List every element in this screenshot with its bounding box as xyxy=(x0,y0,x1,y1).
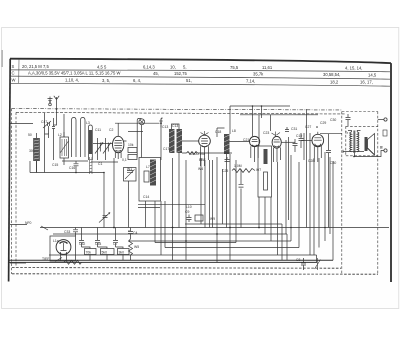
svg-text:10k: 10k xyxy=(128,143,134,147)
wire xyxy=(240,169,242,228)
wire xyxy=(303,133,305,160)
svg-text:C29: C29 xyxy=(320,121,326,125)
transformer top leads xyxy=(348,131,361,133)
svg-text:W7: W7 xyxy=(256,168,261,172)
capacitor C22 xyxy=(225,157,230,162)
wire xyxy=(165,247,299,249)
wire xyxy=(258,197,260,228)
svg-text:C23: C23 xyxy=(263,131,269,135)
svg-text:70k: 70k xyxy=(86,251,92,255)
wire xyxy=(318,158,320,248)
svg-text:300: 300 xyxy=(29,149,35,153)
top rail B+ xyxy=(230,105,290,107)
svg-text:W: W xyxy=(12,78,16,83)
svg-text:C27: C27 xyxy=(305,125,311,129)
svg-text:C16: C16 xyxy=(69,166,75,170)
svg-text:50: 50 xyxy=(28,133,32,137)
svg-text:W5: W5 xyxy=(134,245,139,249)
output terminal 2 xyxy=(384,149,387,152)
coupling capacitor C30 xyxy=(326,134,331,228)
coil L4 hairpin loop 3 xyxy=(89,125,93,160)
ground symbol (antenna pair) xyxy=(48,97,53,106)
scan edge mark xyxy=(1,50,3,67)
frame top border xyxy=(10,59,391,63)
output transformer core xyxy=(354,131,355,154)
wire xyxy=(229,154,231,260)
tube V3 xyxy=(250,136,260,162)
capacitor C7 xyxy=(113,241,118,248)
svg-text:5k0: 5k0 xyxy=(102,251,108,255)
wire xyxy=(53,233,287,235)
IF transformer T1 winding b xyxy=(177,129,183,153)
svg-text:20, 21,5 M 7,5: 20, 21,5 M 7,5 xyxy=(22,64,49,69)
trimmer capacitor C12 xyxy=(52,118,55,160)
wire xyxy=(138,207,160,209)
table row 3 text xyxy=(12,78,373,85)
wire xyxy=(281,224,283,260)
svg-text:1,0M: 1,0M xyxy=(234,164,242,168)
wire xyxy=(128,230,130,231)
riser to V3 xyxy=(252,106,254,136)
svg-text:10,: 10, xyxy=(170,65,176,70)
svg-text:L7: L7 xyxy=(146,165,150,169)
svg-text:C13: C13 xyxy=(162,125,168,129)
coil L3 hairpin loop 2 xyxy=(81,118,86,158)
wire xyxy=(222,169,224,224)
riser left of rail xyxy=(229,106,231,134)
svg-text:14,5: 14,5 xyxy=(368,72,377,77)
wire T2 to V3 xyxy=(230,141,250,143)
antenna xyxy=(54,96,60,125)
wire node xyxy=(30,161,37,173)
svg-text:6,14,3: 6,14,3 xyxy=(143,65,155,70)
svg-text:152,75: 152,75 xyxy=(174,71,187,76)
svg-text:0,1: 0,1 xyxy=(122,158,127,162)
wire xyxy=(160,201,162,255)
svg-text:4,5 5: 4,5 5 xyxy=(97,64,107,69)
capacitor C4 xyxy=(128,228,133,240)
capacitor C6 xyxy=(239,185,244,187)
svg-text:NF0: NF0 xyxy=(25,221,32,225)
wire xyxy=(324,152,326,241)
wire T1 top xyxy=(172,124,180,129)
table row line 2 xyxy=(10,76,391,79)
svg-text:C15: C15 xyxy=(52,163,58,167)
capacitor C32 xyxy=(79,241,84,248)
svg-text:L2: L2 xyxy=(58,133,62,137)
table row line 1 xyxy=(10,70,391,72)
svg-text:3k0: 3k0 xyxy=(119,251,125,255)
dashed bottom line 1 xyxy=(12,267,341,270)
svg-text:C18: C18 xyxy=(215,130,221,134)
riser short xyxy=(270,115,272,131)
wire xyxy=(113,158,115,228)
wire to output terminal xyxy=(354,151,383,157)
svg-text:L10: L10 xyxy=(186,205,192,209)
svg-text:11,61: 11,61 xyxy=(262,65,273,70)
svg-text:C34: C34 xyxy=(95,242,101,246)
volume control xyxy=(99,213,110,223)
svg-text:A,A,30/0,5 35,5V 45/7,1 3,0: A,A,30/0,5 35,5V 45/7,1 3,05A L 11, 5,15… xyxy=(28,71,120,76)
resistor R1 box xyxy=(128,148,137,160)
coil L3 hairpin loop 1 xyxy=(72,118,77,158)
svg-text:L1a: L1a xyxy=(53,239,59,243)
wire xyxy=(290,155,292,241)
table row 2 text xyxy=(12,71,377,78)
svg-text:35,7k: 35,7k xyxy=(253,72,264,77)
wire xyxy=(209,160,211,228)
tube V5 output xyxy=(312,132,342,162)
svg-text:C28: C28 xyxy=(308,159,314,163)
wire xyxy=(329,157,331,234)
capacitor C16 xyxy=(74,161,79,173)
resistor R5 box xyxy=(85,249,97,255)
coil box L2 xyxy=(60,132,69,165)
dashed chassis line B xyxy=(16,112,346,114)
wire xyxy=(154,201,156,243)
svg-text:C11: C11 xyxy=(95,128,101,132)
wire xyxy=(172,158,174,260)
tuning capacitor C1 (variable, arrow) xyxy=(95,138,103,160)
svg-text:C8: C8 xyxy=(296,258,300,262)
svg-text:7,14,: 7,14, xyxy=(246,79,255,84)
svg-text:C47: C47 xyxy=(41,120,47,124)
wire xyxy=(155,242,236,244)
svg-text:S: S xyxy=(12,64,15,69)
svg-text:Bl: Bl xyxy=(379,146,383,149)
switch NF xyxy=(10,225,48,231)
tube V1 ECH4 xyxy=(111,123,127,159)
capacitor C8 xyxy=(301,258,306,270)
wire grid left xyxy=(30,172,104,174)
svg-text:C2: C2 xyxy=(109,128,113,132)
coil in detector box xyxy=(264,149,268,164)
svg-text:W9: W9 xyxy=(210,217,215,221)
tube V2 EBF xyxy=(199,131,211,166)
svg-text:5,: 5, xyxy=(183,65,187,70)
magic eye tube V6 xyxy=(56,240,71,261)
wire xyxy=(313,158,315,255)
capacitor in speaker box xyxy=(346,114,351,126)
jack connector xyxy=(159,118,162,160)
oscillator box xyxy=(139,158,161,202)
bus line 2 xyxy=(10,261,318,263)
wire under V1 xyxy=(91,161,118,163)
svg-text:L8: L8 xyxy=(232,129,236,133)
svg-text:C19: C19 xyxy=(296,134,302,138)
AVC resistor zigzag xyxy=(187,152,198,155)
potentiometer arrow xyxy=(315,258,321,270)
wire V1 grid xyxy=(93,143,111,145)
svg-text:C32: C32 xyxy=(79,242,85,246)
svg-text:C30: C30 xyxy=(330,161,336,165)
wire T1 to V2 xyxy=(182,140,199,142)
wire to V5 xyxy=(301,140,312,142)
wire xyxy=(200,158,202,224)
svg-text:6, 4,: 6, 4, xyxy=(133,78,141,83)
capacitor C33 on rail xyxy=(73,228,78,237)
IF transformer T2 winding xyxy=(224,134,230,154)
oscillator coil (hatched) xyxy=(150,160,156,186)
riser to detector box xyxy=(258,115,260,146)
svg-text:51,: 51, xyxy=(186,78,192,83)
svg-text:C1: C1 xyxy=(98,162,102,166)
wire corner xyxy=(217,128,225,137)
tuning capacitor C2 (variable, arrow) xyxy=(103,138,111,160)
svg-text:C7: C7 xyxy=(113,242,117,246)
svg-text:3, 5,: 3, 5, xyxy=(102,78,110,83)
svg-text:W1: W1 xyxy=(127,167,132,171)
wire xyxy=(204,160,206,228)
wire grid coupling xyxy=(115,122,160,124)
wire xyxy=(185,160,187,260)
magic eye box xyxy=(50,236,76,261)
wire xyxy=(178,153,180,228)
output transformer primary xyxy=(350,132,352,152)
bus line 1 xyxy=(10,259,334,261)
wire under loops xyxy=(62,160,88,162)
wire xyxy=(286,137,289,234)
wire xyxy=(264,197,266,234)
svg-text:1,10, 4,: 1,10, 4, xyxy=(65,78,79,83)
resistor R3 box xyxy=(195,215,203,221)
wire xyxy=(212,160,214,228)
wire xyxy=(309,133,311,255)
wire xyxy=(332,161,334,260)
svg-text:C13: C13 xyxy=(172,124,178,128)
table label column divider xyxy=(18,59,20,83)
trimmer capacitor C47 xyxy=(43,119,51,173)
svg-text:16, 17,: 16, 17, xyxy=(360,80,373,85)
resistor R2 zigzag xyxy=(232,169,255,173)
wire L2 riser xyxy=(45,113,65,137)
svg-text:C30: C30 xyxy=(330,118,336,122)
wire xyxy=(316,255,318,262)
switch TIEF xyxy=(10,258,62,264)
table row 1 text xyxy=(12,64,363,71)
capacitor lead C32 xyxy=(82,228,91,261)
capacitor C19 xyxy=(293,139,298,152)
dashed chassis left edge inner xyxy=(15,112,17,267)
svg-text:EBF: EBF xyxy=(199,158,206,162)
svg-text:C21: C21 xyxy=(243,138,249,142)
wire xyxy=(164,201,166,248)
Bl label box xyxy=(383,130,387,136)
IF transformer T1 winding a xyxy=(169,129,175,153)
svg-text:C31: C31 xyxy=(291,127,297,131)
coil L1 (left, vertical with label texture) xyxy=(34,133,40,173)
svg-text:C14: C14 xyxy=(143,195,149,199)
wire xyxy=(226,154,228,228)
wire xyxy=(298,162,300,248)
AVC wire xyxy=(182,152,232,154)
table row line 3 xyxy=(10,83,391,86)
dashed chassis left edge outer xyxy=(11,109,13,274)
dashed chassis line A xyxy=(12,109,342,110)
svg-text:75,5: 75,5 xyxy=(230,65,239,70)
svg-text:C33: C33 xyxy=(64,230,70,234)
svg-text:45,: 45, xyxy=(153,71,159,76)
svg-text:18,2: 18,2 xyxy=(330,79,339,84)
coil L6 small xyxy=(90,157,93,174)
wire xyxy=(270,197,272,241)
resistor W2 box xyxy=(124,168,137,228)
svg-text:C17: C17 xyxy=(163,147,169,151)
wire mid rail xyxy=(240,114,318,116)
svg-text:W4: W4 xyxy=(198,167,203,171)
svg-text:4, 15, 14,: 4, 15, 14, xyxy=(345,66,362,71)
svg-text:C: C xyxy=(12,71,15,76)
resistor R4 zigzag xyxy=(64,260,82,264)
frame right border xyxy=(390,63,392,282)
wire xyxy=(185,223,282,225)
riser to V4 xyxy=(261,106,263,118)
resistor R7 box xyxy=(118,249,130,255)
wire osc xyxy=(128,131,143,133)
wire xyxy=(138,204,205,206)
svg-text:L3: L3 xyxy=(86,121,90,125)
padder capacitor in box xyxy=(144,171,149,182)
capacitor C31 xyxy=(299,133,304,148)
output transformer secondary xyxy=(357,132,359,152)
wire xyxy=(235,160,237,243)
oscillator coil form loop xyxy=(137,118,141,157)
wire xyxy=(216,157,218,262)
capacitor lead C7 xyxy=(116,228,124,261)
svg-text:10000/10a: 10000/10a xyxy=(189,152,205,156)
capacitor C34 xyxy=(95,241,100,248)
resistor W5 zigzag vertical xyxy=(129,239,133,260)
frame left border xyxy=(9,59,11,282)
riser near C30 xyxy=(306,109,308,228)
speaker bottom wire xyxy=(343,150,364,153)
detector box xyxy=(258,146,272,197)
resistor R6 box xyxy=(101,249,115,255)
capacitor lead C34 xyxy=(98,228,108,261)
wire xyxy=(129,240,291,242)
svg-text:C4: C4 xyxy=(133,231,137,235)
speaker xyxy=(365,134,375,156)
svg-text:30,58,54,: 30,58,54, xyxy=(323,72,340,77)
svg-text:C25: C25 xyxy=(222,169,228,173)
svg-text:TIEF: TIEF xyxy=(42,257,49,261)
speaker enclosure dashed box xyxy=(342,112,378,275)
wire xyxy=(277,162,279,255)
dashed bottom line 2 xyxy=(12,273,378,275)
wire from left border xyxy=(10,123,33,125)
wire xyxy=(103,173,105,228)
svg-text:C9: C9 xyxy=(185,210,189,214)
capacitor C26 xyxy=(285,127,289,132)
wire xyxy=(40,227,389,229)
tube V4 xyxy=(272,132,282,163)
capacitor C9 xyxy=(187,215,192,223)
terminal 1 stub xyxy=(378,119,384,121)
wire xyxy=(145,201,147,228)
wire xyxy=(49,254,317,256)
resistor in detector box xyxy=(264,172,268,190)
output terminal 1 xyxy=(384,118,387,121)
wire xyxy=(286,234,288,260)
pilot lamp xyxy=(139,119,145,158)
wire V4 right xyxy=(281,141,295,143)
